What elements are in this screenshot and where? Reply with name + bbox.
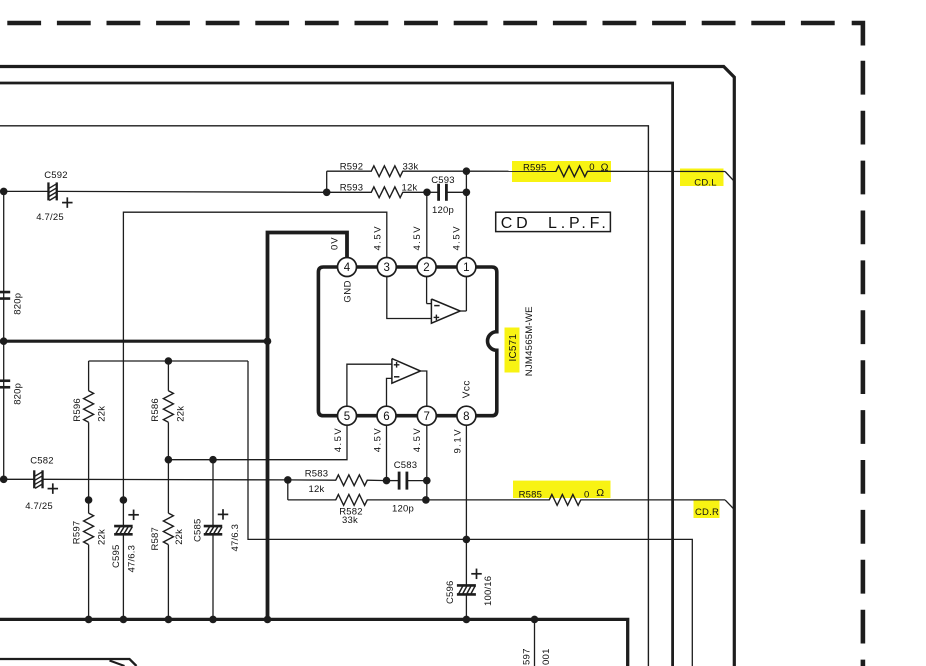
wire	[248, 361, 466, 539]
svg-text:4.5V: 4.5V	[372, 225, 383, 251]
svg-text:CD.L: CD.L	[694, 177, 716, 188]
junction	[165, 616, 173, 624]
wire	[326, 171, 328, 192]
wire	[465, 595, 467, 620]
wire	[88, 500, 90, 513]
wire pin2 column	[426, 192, 428, 258]
svg-text:12k: 12k	[309, 484, 325, 495]
svg-text:IC571: IC571	[508, 334, 519, 362]
junction	[85, 496, 93, 504]
svg-text:C582: C582	[30, 455, 54, 466]
svg-text:CD.R: CD.R	[695, 507, 719, 518]
junction	[0, 476, 8, 484]
wire	[122, 534, 124, 619]
pin 1	[457, 258, 476, 277]
svg-text:GND: GND	[342, 280, 353, 303]
junction	[165, 357, 173, 365]
svg-text:R587: R587	[150, 527, 161, 551]
svg-text:R593: R593	[340, 183, 364, 194]
svg-text:4.7/25: 4.7/25	[25, 501, 53, 512]
svg-text:C595: C595	[111, 544, 122, 568]
wire	[460, 310, 466, 312]
svg-text:9.1V: 9.1V	[452, 428, 463, 454]
junction	[85, 616, 93, 624]
wire	[287, 480, 289, 500]
svg-text:4: 4	[344, 262, 351, 274]
wire	[122, 500, 124, 526]
svg-text:0: 0	[584, 489, 589, 500]
svg-text:0: 0	[589, 162, 594, 173]
wire	[57, 190, 327, 193]
junction	[264, 337, 272, 345]
svg-text:6: 6	[383, 411, 390, 423]
svg-text:C593: C593	[431, 175, 455, 186]
svg-text:0V: 0V	[329, 236, 340, 250]
svg-text:NJM4565M-WE: NJM4565M-WE	[524, 306, 535, 376]
svg-text:33k: 33k	[342, 515, 358, 526]
junction	[284, 476, 292, 484]
svg-text:R597: R597	[72, 521, 83, 545]
junction	[463, 189, 471, 197]
svg-text:4.5V: 4.5V	[372, 427, 383, 453]
wire left bus vertical	[3, 191, 5, 479]
svg-text:22k: 22k	[97, 406, 108, 422]
pin 7	[417, 406, 436, 425]
wire	[387, 276, 432, 318]
capacitor C583	[398, 472, 401, 490]
junction	[0, 188, 8, 196]
wire	[534, 619, 536, 666]
label CD L.P.F. box	[496, 212, 611, 231]
resistor R593	[371, 187, 403, 198]
resistor R586	[163, 391, 173, 423]
svg-text:8: 8	[463, 411, 470, 423]
svg-text:R592: R592	[340, 161, 364, 172]
svg-text:3: 3	[383, 262, 390, 274]
wire	[88, 361, 90, 391]
svg-text:22k: 22k	[176, 406, 187, 422]
wire	[212, 534, 214, 619]
wire	[168, 425, 347, 460]
wire	[0, 478, 34, 480]
svg-text:22k: 22k	[97, 529, 108, 545]
capacitor C592	[47, 182, 49, 200]
resistor R596	[84, 391, 94, 423]
wire	[387, 480, 400, 482]
wire	[167, 460, 169, 514]
svg-text:820p: 820p	[13, 293, 24, 315]
wire	[89, 360, 248, 362]
junction	[422, 496, 430, 504]
svg-text:Ω: Ω	[601, 162, 609, 174]
wire pin6	[386, 425, 388, 481]
junction	[423, 477, 431, 485]
svg-text:R595: R595	[523, 162, 547, 173]
svg-text:4.5V: 4.5V	[412, 427, 423, 453]
junction	[383, 477, 391, 485]
node CD.L	[725, 172, 733, 181]
capacitor C582	[33, 470, 35, 488]
junction	[463, 536, 471, 544]
wire pin8 Vcc	[465, 425, 467, 585]
capacitor C585	[204, 525, 223, 528]
resistor R592	[371, 166, 403, 177]
svg-text:CD L.P.F.: CD L.P.F.	[501, 215, 610, 232]
svg-text:1: 1	[463, 262, 470, 274]
junction	[120, 616, 128, 624]
pin 6	[377, 406, 396, 425]
capacitor 820p (lower)	[0, 379, 10, 382]
svg-text:4.7/25: 4.7/25	[36, 212, 64, 223]
op-amp IC571 body	[318, 267, 496, 416]
wire	[288, 479, 336, 481]
svg-text:4.5V: 4.5V	[333, 427, 344, 453]
resistor R587	[163, 513, 173, 545]
wire 0V bus	[268, 233, 348, 620]
svg-text:R586: R586	[150, 398, 161, 422]
svg-text:12k: 12k	[402, 183, 418, 194]
junction	[531, 616, 539, 624]
wire	[466, 539, 692, 666]
pin 3	[377, 258, 396, 277]
svg-text:5: 5	[344, 411, 351, 423]
svg-text:2: 2	[423, 262, 430, 274]
svg-text:C596: C596	[445, 580, 456, 604]
resistor R583	[336, 475, 368, 486]
wire	[347, 364, 392, 406]
wire	[427, 191, 439, 193]
capacitor C593	[437, 184, 440, 201]
svg-text:47/6.3: 47/6.3	[126, 545, 137, 573]
svg-text:100/16: 100/16	[483, 576, 494, 606]
pin 8	[457, 406, 476, 425]
svg-text:4.5V: 4.5V	[451, 225, 462, 251]
junction	[463, 616, 471, 624]
wire	[387, 378, 392, 406]
svg-text:7: 7	[423, 411, 430, 423]
resistor R597	[84, 513, 94, 545]
svg-text:120p: 120p	[432, 205, 454, 216]
pin 2	[417, 258, 436, 277]
junction	[120, 496, 128, 504]
junction	[264, 616, 272, 624]
wire	[426, 499, 550, 501]
svg-text:R585: R585	[519, 490, 543, 501]
svg-text:820p: 820p	[13, 383, 24, 405]
wire	[43, 478, 288, 481]
capacitor C595	[114, 525, 132, 528]
svg-text:C585: C585	[193, 518, 204, 542]
node CD.R	[725, 500, 733, 509]
svg-text:Ω: Ω	[596, 487, 604, 499]
wire	[327, 170, 372, 172]
junction	[209, 456, 217, 464]
junction	[463, 167, 471, 175]
resistor R582	[336, 495, 368, 506]
svg-text:C592: C592	[44, 170, 68, 181]
svg-text:C583: C583	[394, 460, 418, 471]
junction	[423, 189, 431, 197]
wire	[327, 191, 372, 193]
wire	[421, 371, 427, 407]
junction	[323, 189, 331, 197]
svg-text:597: 597	[522, 648, 533, 665]
junction	[209, 616, 217, 624]
wire	[167, 361, 169, 391]
pin 5	[338, 406, 357, 425]
wire pin7	[426, 425, 428, 500]
wire ground rail	[0, 340, 268, 343]
op-amp IC571-B	[392, 359, 421, 384]
svg-text:Vcc: Vcc	[462, 380, 473, 398]
svg-text:33k: 33k	[403, 161, 419, 172]
pin 4	[338, 258, 357, 277]
wire	[466, 170, 556, 172]
resistor R585	[549, 495, 581, 506]
svg-text:R596: R596	[72, 398, 83, 422]
wire	[123, 212, 386, 500]
capacitor C596	[457, 584, 476, 587]
svg-text:4.5V: 4.5V	[412, 225, 423, 251]
junction	[0, 337, 8, 345]
svg-text:120p: 120p	[392, 504, 414, 515]
svg-text:001: 001	[541, 648, 552, 665]
capacitor 820p (upper)	[0, 291, 10, 294]
svg-text:22k: 22k	[174, 529, 185, 545]
op-amp IC571-A	[431, 299, 460, 323]
junction	[165, 456, 173, 464]
wire	[212, 460, 214, 526]
wire	[426, 276, 428, 303]
wire	[0, 190, 48, 192]
resistor R595	[556, 166, 588, 177]
svg-text:R583: R583	[305, 468, 329, 479]
svg-text:47/6.3: 47/6.3	[230, 524, 241, 552]
wire pin1 column	[465, 171, 467, 258]
wire ground bus	[0, 619, 628, 666]
